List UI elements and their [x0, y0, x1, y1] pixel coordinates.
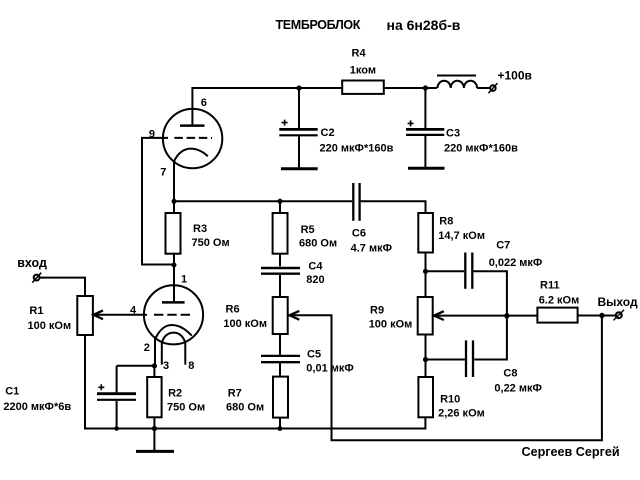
svg-text:750 Ом: 750 Ом: [192, 237, 230, 249]
svg-text:R8: R8: [439, 215, 453, 227]
svg-text:вход: вход: [17, 256, 47, 270]
svg-text:на 6н28б-в: на 6н28б-в: [387, 17, 461, 33]
svg-text:R4: R4: [352, 48, 367, 60]
svg-text:680 Ом: 680 Ом: [299, 238, 337, 250]
svg-text:R9: R9: [370, 304, 384, 316]
svg-text:C5: C5: [307, 348, 321, 360]
svg-text:Сергеев Сергей: Сергеев Сергей: [522, 445, 620, 459]
svg-text:2: 2: [144, 342, 150, 354]
svg-text:6: 6: [201, 97, 207, 109]
svg-text:C1: C1: [5, 385, 19, 397]
svg-text:0,01 мкФ: 0,01 мкФ: [306, 362, 354, 374]
svg-text:9: 9: [149, 128, 155, 140]
svg-text:4.7 мкФ: 4.7 мкФ: [351, 243, 392, 255]
svg-text:2200 мкФ*6в: 2200 мкФ*6в: [3, 401, 71, 413]
svg-text:100 кОм: 100 кОм: [369, 318, 413, 330]
svg-text:100 кОм: 100 кОм: [223, 318, 267, 330]
svg-text:ТЕМБРОБЛОК: ТЕМБРОБЛОК: [276, 18, 361, 32]
svg-text:680 Ом: 680 Ом: [226, 402, 264, 414]
svg-text:R2: R2: [168, 388, 182, 400]
svg-text:4: 4: [130, 305, 137, 317]
svg-text:820: 820: [306, 274, 324, 286]
svg-text:C7: C7: [496, 240, 510, 252]
svg-text:R1: R1: [29, 305, 43, 317]
svg-text:R10: R10: [440, 393, 460, 405]
svg-text:7: 7: [160, 166, 166, 178]
svg-text:2,26 кОм: 2,26 кОм: [438, 407, 485, 419]
svg-text:8: 8: [188, 360, 194, 372]
svg-text:220 мкФ*160в: 220 мкФ*160в: [320, 142, 394, 154]
svg-text:1ком: 1ком: [350, 64, 376, 76]
svg-text:14,7 кОм: 14,7 кОм: [438, 230, 485, 242]
svg-text:1: 1: [181, 273, 187, 285]
svg-text:Выход: Выход: [598, 295, 638, 309]
svg-text:C3: C3: [446, 127, 460, 139]
svg-text:3: 3: [163, 360, 169, 372]
svg-text:R5: R5: [301, 224, 315, 236]
svg-text:C6: C6: [352, 227, 366, 239]
svg-text:100 кОм: 100 кОм: [28, 320, 72, 332]
svg-text:6.2 кОм: 6.2 кОм: [539, 295, 580, 307]
svg-text:0,022 мкФ: 0,022 мкФ: [489, 257, 543, 269]
svg-text:R7: R7: [228, 388, 242, 400]
svg-text:220 мкФ*160в: 220 мкФ*160в: [444, 142, 518, 154]
svg-text:C8: C8: [503, 368, 517, 380]
svg-text:+100в: +100в: [498, 69, 532, 83]
svg-text:C2: C2: [321, 127, 335, 139]
svg-text:R3: R3: [193, 223, 207, 235]
svg-text:0,22 мкФ: 0,22 мкФ: [494, 383, 542, 395]
svg-text:R11: R11: [540, 280, 560, 292]
svg-text:R6: R6: [226, 304, 240, 316]
svg-text:C4: C4: [308, 260, 323, 272]
svg-text:750 Ом: 750 Ом: [167, 402, 205, 414]
